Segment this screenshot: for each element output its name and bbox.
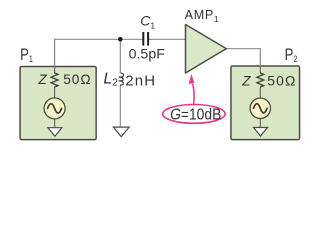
svg-text:50Ω: 50Ω <box>267 72 296 88</box>
svg-text:2nH: 2nH <box>125 72 156 89</box>
svg-text:G=10dB: G=10dB <box>170 107 221 124</box>
inductor L2 <box>119 73 124 85</box>
svg-text:AMP1: AMP1 <box>185 8 219 24</box>
svg-text:L2: L2 <box>103 71 118 89</box>
AC source (P1) <box>44 98 65 119</box>
port box P1 <box>20 66 96 139</box>
wire: amplifier output to P2 <box>226 49 260 66</box>
ground (P1) <box>48 128 62 137</box>
svg-text:Z: Z <box>37 72 47 87</box>
svg-text:Z: Z <box>241 73 251 88</box>
resistor Z (P2) <box>257 73 264 87</box>
svg-text:C1: C1 <box>140 13 155 31</box>
capacitor C1 <box>143 32 148 46</box>
node junction dot <box>118 37 123 42</box>
port box P2 <box>231 66 300 140</box>
P1 interior wires <box>54 66 56 128</box>
svg-text:P1: P1 <box>20 46 33 65</box>
op-amp AMP1 <box>186 25 227 74</box>
resistor Z (P1) <box>51 73 58 87</box>
ground (L2) <box>113 127 129 137</box>
ground (P2) <box>254 128 268 137</box>
P2 interior wires <box>259 66 261 127</box>
wire: main horizontal to C1 <box>54 38 142 40</box>
wire: C1 to amplifier <box>149 38 186 40</box>
gain callout ellipse G=10dB <box>163 105 225 124</box>
svg-text:0.5pF: 0.5pF <box>129 47 166 63</box>
wire: L2 to ground <box>119 85 121 127</box>
wire: P1 top vertical <box>54 39 56 66</box>
svg-text:P2: P2 <box>285 46 298 65</box>
wire: junction down to L2 <box>119 39 121 73</box>
svg-text:50Ω: 50Ω <box>63 72 91 87</box>
AC source (P2) <box>250 98 270 118</box>
gain callout arrow <box>193 84 194 105</box>
